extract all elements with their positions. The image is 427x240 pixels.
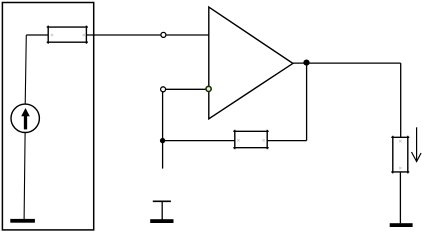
pin marks R1 — [51, 34, 85, 36]
op-amp U1 — [209, 7, 293, 119]
resistor R1 — [47, 26, 88, 44]
wire: vertical from inverting input down past feedback node — [162, 92, 164, 169]
wire: R2 to feedback vertical — [267, 140, 306, 142]
arrow annotation beside load — [416, 127, 418, 161]
wire: resistor R1 left lead — [26, 34, 48, 36]
junction dot output node — [303, 60, 309, 66]
resistor R2 (feedback) — [233, 130, 268, 149]
wire: feedback node to R2 — [163, 140, 235, 142]
wire: inverting input — [163, 88, 209, 90]
ground (middle, floating) — [153, 200, 171, 202]
pin marks R3 — [399, 140, 401, 169]
wire: load resistor to ground — [399, 172, 401, 223]
source enclosure box — [2, 3, 93, 230]
pin marks R2 — [237, 139, 265, 141]
wire: R1 right lead to op-amp input — [86, 34, 208, 36]
current source arrow — [24, 115, 27, 129]
junction dot feedback node — [160, 138, 165, 143]
wire: op-amp output to load — [293, 62, 401, 64]
wire: current source to ground — [24, 133, 25, 220]
current source I1 — [11, 104, 39, 132]
terminal circle on inverting input wire — [161, 87, 166, 92]
ground (left) — [10, 219, 35, 223]
wire: down right side to load resistor — [400, 63, 402, 137]
green pin circle at op-amp inverting input — [206, 86, 211, 91]
wire: left vertical from R1 to current source — [25, 35, 26, 104]
resistor R3 (load) — [391, 136, 409, 174]
terminal circle on non-inverting input wire — [161, 32, 166, 37]
wire: feedback vertical up to output — [306, 63, 308, 141]
ground (right) — [390, 223, 413, 227]
